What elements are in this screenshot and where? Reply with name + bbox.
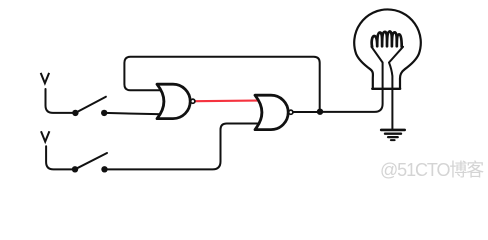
wire node Q to lamp left lead, filament left support xyxy=(320,47,383,112)
lamp DS1 filament coil xyxy=(372,31,402,46)
watermark xyxy=(380,156,488,182)
switch S1 lever xyxy=(75,97,106,113)
wire S2 to gate U2 input B xyxy=(105,124,261,170)
gate U2 inversion bubble xyxy=(289,110,293,114)
wire S1 to gate U1 input B xyxy=(104,113,163,114)
switch S2 pole junction xyxy=(72,166,78,172)
wire V2 stem xyxy=(46,146,75,169)
gate U2 NOR body xyxy=(255,95,288,129)
wire V1 stem xyxy=(46,89,76,113)
lamp DS1 base line xyxy=(372,88,400,90)
node Q junction dot xyxy=(317,109,323,115)
wire feedback from output node to gate U1 input A xyxy=(124,57,319,112)
ground GND bar 2 xyxy=(385,132,401,134)
gate U1 inversion bubble xyxy=(191,99,195,103)
lamp DS1 right support and lead to ground xyxy=(389,47,403,129)
ground GND bar 3 xyxy=(388,136,398,138)
node V1 label xyxy=(41,73,49,83)
switch S1 pole junction xyxy=(72,110,78,116)
lamp DS1 glass envelope xyxy=(354,9,421,88)
switch S2 lever xyxy=(75,153,107,169)
ground GND bar 1 xyxy=(381,129,405,132)
wire red U1 output to U2 input A xyxy=(196,99,260,102)
gate U1 NOR body xyxy=(157,84,190,118)
node V2 label xyxy=(41,131,49,141)
switch S2 contact node xyxy=(101,166,107,172)
wire U2 output to node Q xyxy=(293,111,320,113)
switch S1 contact node xyxy=(101,110,107,116)
ground GND bar 4 xyxy=(391,139,395,141)
